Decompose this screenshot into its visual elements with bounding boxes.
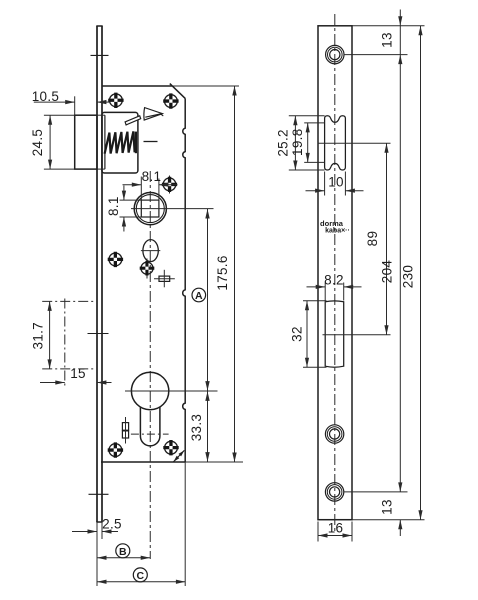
faceplate break tick upper bbox=[91, 54, 109, 56]
svg-text:B: B bbox=[119, 546, 127, 558]
dim 31.7 dash-dot bottom line bbox=[42, 368, 95, 370]
dim 24.5 extension bottom bbox=[44, 168, 75, 170]
dim 204 line bbox=[399, 55, 401, 492]
latch lever small wedge bbox=[125, 116, 141, 125]
ext bottom edge right bbox=[352, 519, 425, 521]
dim 10.5 extension line vertical bbox=[74, 96, 76, 115]
dim 16 ext left bbox=[317, 522, 319, 542]
svg-text:33.3: 33.3 bbox=[189, 414, 204, 441]
latch cutout center extension line bbox=[318, 142, 391, 144]
dim C line case depth bbox=[97, 581, 185, 583]
dim 13 bottom outside arrow below bbox=[399, 520, 401, 536]
faceplate break tick middle bbox=[88, 333, 109, 335]
vertical centerline through follower/cylinder bbox=[149, 171, 151, 559]
bottom screw hole outer bbox=[325, 483, 343, 501]
dim 8.1 vertical arrows outside bbox=[123, 186, 125, 201]
adjusting screw centerline bbox=[125, 417, 127, 444]
dim 25.2 ext top bbox=[289, 115, 325, 117]
dim 8.2 ext left bbox=[324, 283, 326, 301]
lock case top-right chamfer bbox=[170, 84, 185, 99]
latch cutout bbox=[325, 116, 346, 170]
dim 31.7 line with arrows bbox=[49, 301, 51, 369]
lock case top edge extension right bbox=[172, 85, 239, 87]
dim 8.1 vertical ext bottom bbox=[120, 216, 142, 218]
svg-text:15: 15 bbox=[70, 366, 86, 381]
dim 19.8 line bbox=[307, 123, 309, 162]
dim 16 line bbox=[318, 535, 352, 537]
bottom screw hole middle ring bbox=[327, 485, 342, 500]
dim 16 ext right bbox=[351, 522, 353, 542]
faceplate top edge bbox=[96, 25, 102, 27]
lock case top edge bbox=[102, 85, 172, 87]
svg-text:10: 10 bbox=[328, 175, 344, 190]
euro cylinder neck and bottom lobe bbox=[140, 407, 160, 446]
middle screw hole middle ring bbox=[327, 427, 342, 442]
spring end bar bbox=[135, 132, 137, 154]
adjust block small rect with crosshair bbox=[159, 276, 170, 281]
lock case bottom edge bbox=[101, 461, 185, 463]
svg-text:230: 230 bbox=[401, 265, 416, 288]
screw bottom-right bbox=[165, 441, 178, 454]
oval hole below follower bbox=[143, 240, 158, 262]
screw near follower bbox=[169, 176, 171, 194]
square hole left edge extension up bbox=[140, 177, 142, 201]
svg-text:A: A bbox=[195, 290, 203, 302]
follower square hole bbox=[141, 200, 159, 217]
dim 8.2 left segment bbox=[307, 286, 326, 288]
dim A circled letter bbox=[192, 288, 206, 302]
ext bottom hole center bbox=[344, 491, 408, 493]
faceplate back line bbox=[101, 26, 103, 522]
lock case right edge with clip notches bbox=[183, 98, 185, 462]
dim C circled letter bbox=[133, 568, 147, 582]
dim 32 ext top bbox=[303, 300, 327, 302]
svg-text:16: 16 bbox=[328, 521, 344, 536]
dim 8.1 vertical ext top bbox=[120, 199, 142, 201]
dim 2.5 right segment bbox=[102, 531, 118, 533]
faceplate front extension to B/C dims bbox=[96, 522, 98, 586]
dim 10 ext right bbox=[344, 172, 346, 196]
adjusting screw two stacked squares bbox=[122, 423, 128, 431]
svg-text:kaba×··: kaba×·· bbox=[325, 228, 350, 235]
bottom-right assembly mark diagonal bbox=[174, 450, 185, 461]
top screw hole outer bbox=[326, 45, 344, 63]
middle screw hole outer bbox=[325, 425, 343, 443]
spindle follower outer circle bbox=[134, 193, 166, 225]
euro profile cylinder circle bbox=[131, 372, 168, 409]
screw top-left bbox=[110, 94, 123, 107]
lock case right edge extension down to C dim bbox=[184, 462, 186, 586]
svg-text:13: 13 bbox=[380, 499, 395, 515]
ext top edge right bbox=[352, 25, 425, 27]
dim 2.5 left segment bbox=[72, 531, 97, 533]
screw bottom-left bbox=[109, 444, 122, 457]
dim 13 top line segment bbox=[399, 26, 401, 55]
dim 25.2 ext bottom bbox=[289, 169, 325, 171]
dim 8.2 ext right bbox=[343, 283, 345, 301]
dim 19.8 ext bottom bbox=[304, 161, 324, 163]
faceplate (forend) front line bbox=[96, 26, 98, 522]
dim 13 top outside arrow above bbox=[399, 10, 401, 26]
dim 8.2 right segment bbox=[344, 286, 362, 288]
faceplate bottom edge bbox=[96, 521, 102, 523]
latch return spring coil bbox=[105, 131, 135, 153]
svg-text:8.2: 8.2 bbox=[324, 273, 344, 288]
svg-text:8.1: 8.1 bbox=[106, 196, 121, 216]
latch spring housing box bbox=[102, 112, 138, 173]
latch tail dash bbox=[144, 141, 158, 143]
dim 89 line bbox=[386, 143, 388, 335]
svg-text:25.2: 25.2 bbox=[276, 129, 291, 156]
bottom screw hole inner bbox=[330, 487, 340, 497]
square hole right edge extension up bbox=[158, 179, 160, 201]
follower horizontal centerline bbox=[131, 208, 214, 210]
dim 8.1 horizontal line right segment bbox=[159, 184, 178, 186]
dim 15 left segment with arrow bbox=[40, 382, 65, 384]
dim 24.5 extension top bbox=[44, 114, 75, 116]
dim 25.2 line bbox=[294, 116, 296, 170]
dim 33.3 line bbox=[207, 391, 209, 461]
dim 31.7 dash-dot top line (handle ref) bbox=[42, 300, 95, 302]
dim 10 right segment bbox=[345, 190, 363, 192]
strike plate vertical centerline bbox=[334, 14, 336, 531]
deadbolt slot center extension line bbox=[323, 334, 391, 336]
dim 10 left segment bbox=[306, 190, 325, 192]
deadbolt slot bbox=[325, 301, 344, 367]
dim 15 right segment with arrow bbox=[97, 382, 112, 384]
dim 32 line bbox=[306, 301, 308, 367]
dim 8.1 horizontal line left segment bbox=[123, 184, 142, 186]
svg-text:89: 89 bbox=[365, 231, 380, 247]
latch bolt wedge fold line bbox=[145, 114, 163, 117]
dim 10 ext left bbox=[324, 172, 326, 196]
svg-text:32: 32 bbox=[289, 326, 304, 342]
lock case bottom edge extension right bbox=[185, 461, 243, 463]
dim 10.5 right arrow at faceplate bbox=[97, 101, 110, 103]
svg-text:13: 13 bbox=[380, 32, 395, 48]
latch bolt head protruding through faceplate bbox=[75, 115, 97, 169]
svg-text:204: 204 bbox=[380, 260, 395, 284]
dim B circled letter bbox=[116, 544, 130, 558]
svg-text:19.8: 19.8 bbox=[290, 128, 305, 155]
dim 24.5 line with arrows bbox=[49, 115, 51, 169]
top screw hole middle ring bbox=[328, 47, 343, 62]
faceplate break tick lower bbox=[89, 493, 109, 495]
dim B line backset bbox=[97, 557, 150, 559]
svg-text:C: C bbox=[137, 570, 145, 582]
svg-text:31.7: 31.7 bbox=[31, 322, 46, 349]
latch bolt big wedge bbox=[144, 108, 163, 121]
svg-text:8.1: 8.1 bbox=[142, 169, 162, 184]
dim 230 line bbox=[420, 26, 422, 520]
dim 10.5 leader left with arrow bbox=[34, 101, 75, 103]
handle ref vertical dash-dot bbox=[64, 299, 66, 387]
strike faceplate outline bbox=[318, 26, 352, 520]
ext top hole center bbox=[344, 54, 408, 56]
spindle follower inner circle bbox=[136, 195, 164, 223]
svg-text:24.5: 24.5 bbox=[30, 129, 45, 156]
cylinder horizontal centerline bbox=[125, 390, 218, 392]
dim 2.5 faceplate back extension bbox=[101, 522, 103, 539]
oval crosshair horizontal bbox=[141, 250, 160, 252]
dim 175.6 line bbox=[234, 86, 236, 462]
latch tail guide inner line bbox=[104, 115, 106, 169]
svg-text:2.5: 2.5 bbox=[102, 517, 122, 532]
svg-text:175.6: 175.6 bbox=[215, 255, 230, 290]
screw mid-left bbox=[109, 253, 122, 266]
dim 19.8 ext top bbox=[304, 122, 324, 124]
top screw hole inner bbox=[330, 50, 340, 60]
middle screw hole inner bbox=[330, 429, 340, 439]
cylinder bottom lobe centerline bbox=[131, 433, 169, 435]
dim 32 ext bottom bbox=[303, 366, 327, 368]
screw below oval bbox=[146, 259, 148, 279]
dim A line follower-to-cylinder bbox=[207, 209, 209, 391]
screw top-right bbox=[165, 95, 178, 108]
